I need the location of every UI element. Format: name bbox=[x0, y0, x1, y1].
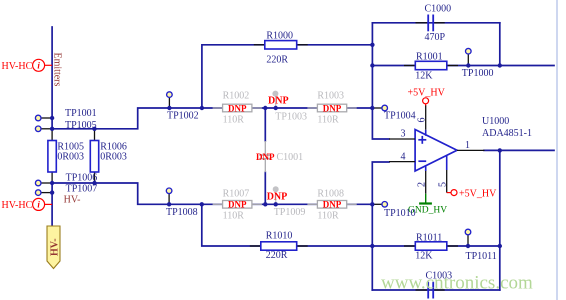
svg-text:4: 4 bbox=[401, 152, 406, 163]
svg-text:U1000: U1000 bbox=[482, 116, 509, 127]
test point TP1010 bbox=[372, 202, 415, 220]
svg-text:TP1002: TP1002 bbox=[167, 111, 199, 122]
svg-text:HV-HC: HV-HC bbox=[2, 200, 33, 211]
svg-text:TP1000: TP1000 bbox=[462, 68, 494, 79]
power +5V_HV (pin 5) bbox=[447, 189, 497, 200]
junction R1006 top bbox=[92, 127, 96, 131]
svg-text:DNP: DNP bbox=[323, 103, 342, 113]
capacitor C1000 bbox=[416, 3, 452, 43]
resistor R1008 (DNP) bbox=[307, 189, 356, 222]
wire C1001 vertical lower bbox=[264, 172, 266, 204]
junction output node bbox=[498, 148, 502, 152]
junction TP1009 node bbox=[274, 202, 278, 206]
junction C1000 right node bbox=[498, 63, 502, 67]
svg-text:www.cntronics.com: www.cntronics.com bbox=[381, 273, 533, 294]
wire left rail upper bbox=[372, 23, 389, 139]
test point TP1001 bbox=[35, 108, 96, 121]
wire right feedback rail lower bbox=[499, 150, 501, 290]
resistor R1003 (DNP) bbox=[307, 90, 356, 125]
svg-text:+5V_HV: +5V_HV bbox=[408, 88, 446, 99]
junction TP1007 node bbox=[50, 190, 54, 194]
junction TP1006 node bbox=[50, 181, 54, 185]
wire HV- lower vertical bbox=[51, 183, 53, 225]
resistor R1000 bbox=[254, 30, 308, 65]
svg-text:TP1007: TP1007 bbox=[66, 184, 98, 195]
junction R1010/R1011 node bbox=[370, 244, 374, 248]
test point TP1009 (DNP, gray) bbox=[267, 186, 306, 218]
svg-text:0R003: 0R003 bbox=[57, 151, 84, 162]
junction R1000 output node bbox=[370, 43, 374, 47]
svg-text:110R: 110R bbox=[223, 115, 245, 126]
wire R1011 row bbox=[372, 245, 500, 247]
svg-text:R1001: R1001 bbox=[416, 52, 443, 63]
junction TP1000 node bbox=[466, 63, 470, 67]
svg-text:5: 5 bbox=[437, 182, 448, 187]
svg-text:HV-HC: HV-HC bbox=[2, 61, 33, 72]
sheet border right bbox=[556, 0, 558, 300]
test point TP1000 bbox=[462, 48, 494, 79]
svg-text:6: 6 bbox=[416, 118, 427, 123]
capacitor C1001 (DNP) bbox=[256, 141, 303, 172]
svg-text:2: 2 bbox=[416, 182, 427, 187]
resistor R1005 bbox=[48, 129, 84, 183]
wire node A row (upper DNP row) bbox=[202, 107, 372, 109]
wire R1001 row bbox=[372, 65, 554, 67]
resistor R1011 bbox=[404, 233, 458, 262]
svg-text:TP1010: TP1010 bbox=[384, 208, 416, 219]
power flag HV- bbox=[47, 226, 61, 269]
svg-text:110R: 110R bbox=[223, 211, 245, 222]
wire C1001 vertical upper bbox=[264, 108, 266, 141]
svg-text:R1011: R1011 bbox=[416, 233, 442, 244]
wire output row bbox=[484, 149, 554, 151]
wire left rail lower bbox=[372, 162, 389, 290]
junction TP1001 node bbox=[50, 116, 54, 120]
svg-text:HV-: HV- bbox=[50, 238, 61, 256]
resistor R1010 bbox=[250, 231, 308, 261]
wire right feedback rail upper bbox=[499, 23, 501, 66]
junction TP1002 node bbox=[167, 106, 171, 110]
junction R1001 left node bbox=[370, 63, 374, 67]
port HV-HC upper bbox=[2, 59, 53, 72]
test point TP1003 (DNP, gray) bbox=[268, 91, 307, 123]
junction C1001 bottom bbox=[263, 202, 267, 206]
test point TP1006 bbox=[35, 173, 97, 186]
svg-text:TP1001: TP1001 bbox=[65, 108, 97, 119]
wire C1000 top loop bbox=[372, 22, 499, 24]
svg-text:R1008: R1008 bbox=[317, 189, 344, 200]
junction R1006 bottom bbox=[92, 181, 96, 185]
svg-text:220R: 220R bbox=[266, 250, 288, 261]
svg-text:TP1003: TP1003 bbox=[275, 112, 307, 123]
svg-text:110R: 110R bbox=[317, 211, 339, 222]
resistor R1007 (DNP) bbox=[213, 189, 262, 222]
svg-text:C1001: C1001 bbox=[277, 152, 304, 163]
svg-text:470P: 470P bbox=[425, 32, 446, 43]
resistor R1006 bbox=[90, 129, 127, 183]
svg-text:TP1009: TP1009 bbox=[274, 207, 306, 218]
svg-text:DNP: DNP bbox=[228, 103, 247, 113]
wire TP1006 row bbox=[52, 183, 202, 204]
port HV-HC lower bbox=[2, 198, 53, 211]
svg-text:R1007: R1007 bbox=[223, 189, 250, 200]
svg-text:R1002: R1002 bbox=[223, 90, 250, 101]
svg-text:R1010: R1010 bbox=[266, 231, 293, 242]
test point TP1011 bbox=[465, 229, 497, 262]
svg-text:110R: 110R bbox=[317, 115, 339, 126]
junction TP1011 node bbox=[466, 244, 470, 248]
svg-text:R1000: R1000 bbox=[266, 30, 293, 41]
wire TP1005 row bbox=[52, 108, 202, 129]
svg-text:TP1004: TP1004 bbox=[384, 111, 416, 122]
junction C1003 right node bbox=[498, 244, 502, 248]
wire R1000 branch bbox=[202, 45, 373, 108]
svg-text:12K: 12K bbox=[415, 250, 433, 261]
svg-text:DNP: DNP bbox=[323, 200, 342, 210]
wire R1010 branch bbox=[202, 204, 372, 246]
svg-text:DNP: DNP bbox=[268, 95, 289, 106]
junction C1001 top bbox=[263, 106, 267, 110]
svg-text:DNP: DNP bbox=[256, 152, 275, 162]
junction TP1003 node bbox=[274, 106, 278, 110]
wire node B row (lower DNP row) bbox=[202, 203, 372, 205]
capacitor C1003 bbox=[416, 270, 453, 298]
svg-text:HV-: HV- bbox=[64, 195, 81, 206]
svg-text:C1000: C1000 bbox=[425, 3, 452, 14]
svg-text:+5V_HV: +5V_HV bbox=[459, 189, 497, 200]
power +5V_HV (pin 6) bbox=[408, 88, 446, 106]
svg-text:12K: 12K bbox=[415, 70, 433, 81]
test point TP1004 bbox=[372, 105, 415, 121]
wire emitters vertical bbox=[51, 27, 53, 129]
wire C1003 bottom loop bbox=[372, 289, 500, 291]
junction node IN+ rail bbox=[370, 106, 374, 110]
svg-text:Emitters: Emitters bbox=[52, 53, 63, 87]
junction R1000 branch bbox=[200, 106, 204, 110]
junction R1010 branch bbox=[200, 202, 204, 206]
svg-text:DNP: DNP bbox=[267, 192, 288, 203]
op-amp U1000 bbox=[389, 105, 532, 194]
svg-text:220R: 220R bbox=[266, 54, 288, 65]
svg-text:ADA4851-1: ADA4851-1 bbox=[482, 128, 532, 139]
junction TP1005 node bbox=[50, 127, 54, 131]
resistor R1002 (DNP) bbox=[213, 90, 262, 125]
resistor R1001 bbox=[404, 52, 458, 82]
junction TP1008 node bbox=[167, 202, 171, 206]
svg-text:TP1011: TP1011 bbox=[466, 251, 497, 262]
svg-text:TP1005: TP1005 bbox=[65, 120, 97, 131]
svg-text:R1003: R1003 bbox=[317, 90, 344, 101]
svg-text:DNP: DNP bbox=[228, 200, 247, 210]
test point TP1002 bbox=[167, 92, 199, 122]
svg-text:1: 1 bbox=[465, 140, 470, 151]
test point TP1007 bbox=[35, 184, 97, 196]
svg-text:TP1008: TP1008 bbox=[166, 207, 198, 218]
test point TP1008 bbox=[166, 188, 198, 218]
ground GND_HV (pin 2) bbox=[408, 194, 447, 216]
junction node IN- rail bbox=[370, 202, 374, 206]
svg-text:3: 3 bbox=[401, 129, 406, 140]
svg-text:0R003: 0R003 bbox=[100, 151, 127, 162]
test point TP1005 bbox=[35, 120, 96, 132]
